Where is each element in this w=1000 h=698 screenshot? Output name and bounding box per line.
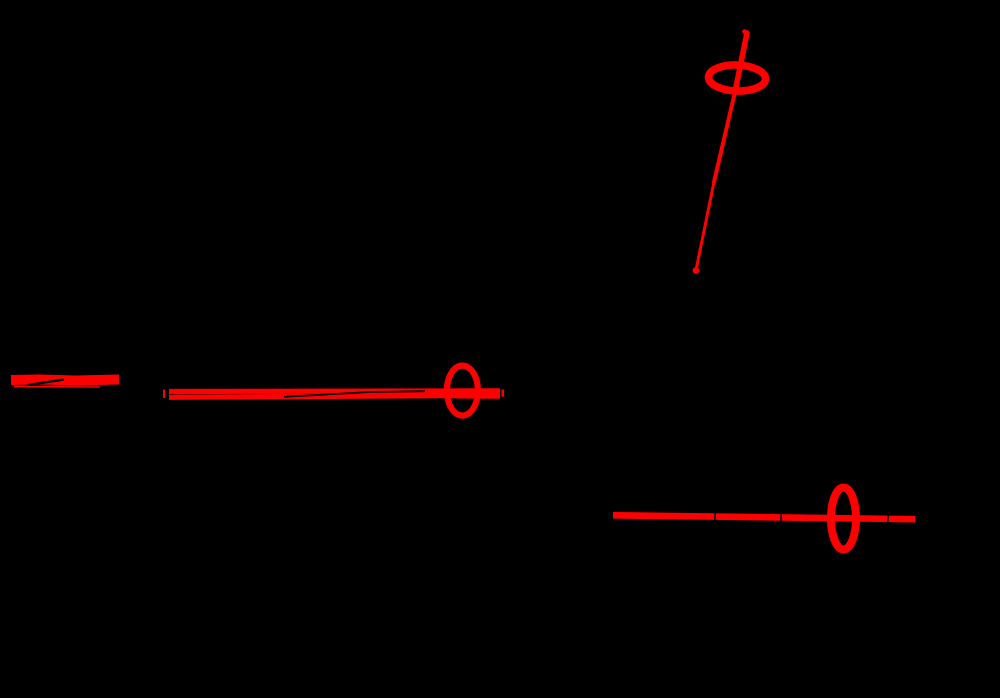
inductor-like loop L3 around wire W3 xyxy=(831,488,856,550)
inductor-like loop L1 around wire W1 xyxy=(708,64,766,92)
wire nick on W3 (gap near x=888) xyxy=(888,513,889,525)
node: pen dot at top end of W1 xyxy=(742,29,747,34)
wire W2b: main middle horizontal axis xyxy=(169,391,500,398)
wire W1: diagonal axis line top-right, upper segment xyxy=(696,33,747,270)
wire W2a underline tick xyxy=(14,386,100,389)
inductor-like loop L2 around wire W2b xyxy=(447,366,478,416)
wire nick (eraser wedge) on W2b xyxy=(284,391,425,397)
node: blob at bottom end of W1 xyxy=(693,267,700,274)
wire nick on W3 (gap near x=781) xyxy=(781,512,782,524)
wire W2a: left stub of middle horizontal axis xyxy=(11,380,119,381)
wire nick on W3 (gap near x=716) xyxy=(715,511,716,523)
wire W3: lower-right horizontal axis xyxy=(613,515,915,519)
node tick at start of W2b xyxy=(163,390,165,399)
wire nick (eraser mark) on W2a xyxy=(28,380,64,386)
node: detached end tick of W2b xyxy=(502,390,505,397)
